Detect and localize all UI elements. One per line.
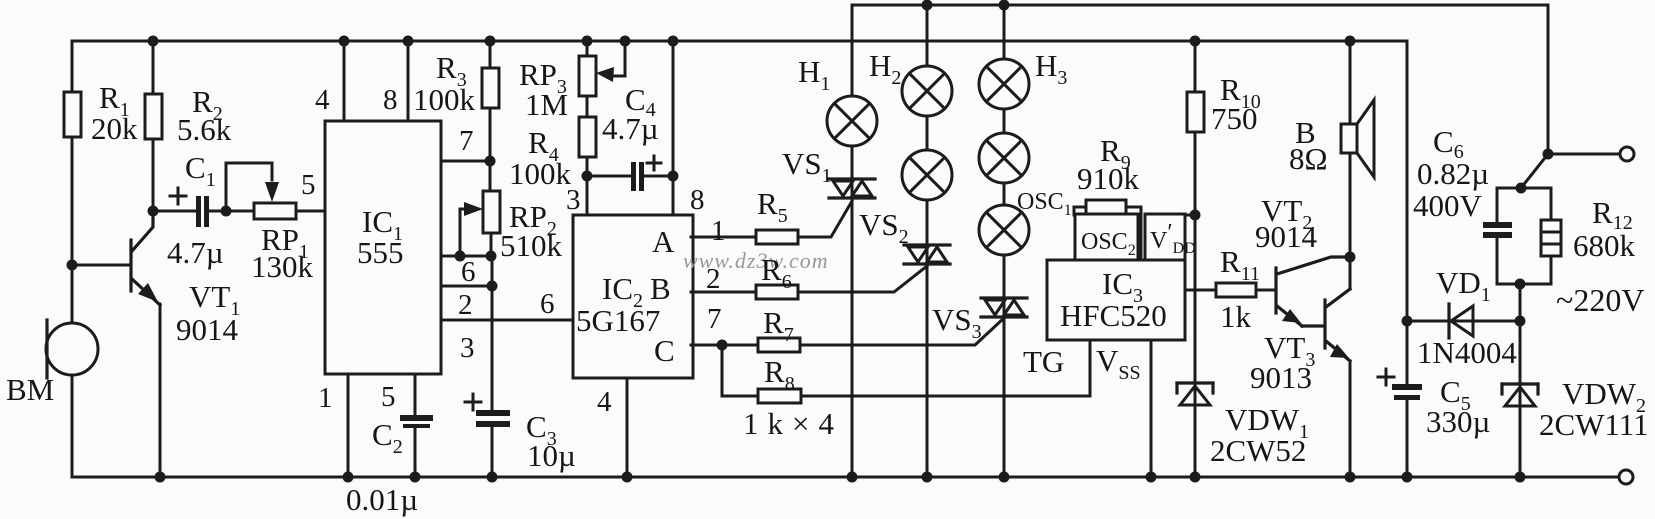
wire: VS1 to ground (851, 198, 854, 477)
svg-text:R11: R11 (1220, 244, 1260, 285)
node: ground rail / VS3 (999, 472, 1010, 483)
svg-text:R5: R5 (757, 186, 788, 227)
node: C1/RP1 wiper (221, 206, 232, 217)
wire: IC1 pin 3 to IC2 pin 6 (441, 319, 573, 322)
svg-text:7: 7 (459, 125, 474, 157)
potentiometer RP3 1M (586, 41, 589, 56)
lamp H3a (1003, 5, 1006, 60)
node: mid rail / IC1 pin8 (403, 36, 414, 47)
node: ground rail / VT1 emitter (155, 472, 166, 483)
resistor R4 100k (579, 117, 596, 157)
potentiometer RP1 130k (254, 203, 296, 219)
node: ground rail / VDW2 (1515, 472, 1526, 483)
node: ground rail / IC1 pin1 (343, 472, 354, 483)
node: mid rail / RP3 (582, 36, 593, 47)
wire: H1 to VS1 (851, 146, 854, 198)
capacitor C2 0.01u (400, 415, 433, 421)
node: speaker/collectors (1345, 252, 1356, 263)
node: mid rail / IC1 pin4 (339, 36, 350, 47)
resistor R2 5.6k (152, 41, 155, 94)
node: ground rail / VT3 emitter (1345, 472, 1356, 483)
svg-text:H3: H3 (1035, 48, 1067, 89)
wire: IC1 pin 5 bottom (414, 374, 417, 417)
svg-text:A: A (652, 224, 675, 259)
node: R2/VT1 collector/C1 (148, 206, 159, 217)
svg-text:4.7µ: 4.7µ (167, 235, 224, 270)
capacitor C5 330u (1406, 321, 1409, 386)
svg-text:www.dz3w.com: www.dz3w.com (683, 248, 829, 273)
node: VT1 base tee (67, 260, 78, 271)
svg-text:R8: R8 (764, 354, 795, 395)
capacitor C4 4.7u (587, 175, 631, 178)
svg-text:510k: 510k (500, 228, 563, 263)
svg-text:8Ω: 8Ω (1289, 141, 1328, 176)
lamp H2b (926, 116, 929, 151)
node: ground rail / C5 (1402, 472, 1413, 483)
transistor VT1 9014 (129, 240, 132, 291)
terminal: AC line top (1620, 147, 1634, 161)
IC U1: IC1 555 box (325, 121, 441, 374)
wire: VS3 to ground (1003, 317, 1006, 477)
node: ground rail / C3 (487, 472, 498, 483)
wire: mid supply rail (72, 41, 1407, 321)
svg-text:1k×4: 1k×4 (743, 406, 843, 441)
svg-text:6: 6 (461, 256, 476, 288)
svg-text:OSC2: OSC2 (1081, 229, 1136, 259)
wire: IC1 pin 6 (441, 255, 492, 258)
svg-text:750: 750 (1211, 101, 1258, 136)
wire: IC1 pin 8 (407, 41, 410, 121)
svg-text:BM: BM (6, 372, 54, 407)
svg-text:4.7µ: 4.7µ (602, 111, 659, 146)
node: ground rail / VS1 (847, 472, 858, 483)
svg-text:5: 5 (301, 169, 316, 201)
zener VDW1 2CW52 (1177, 381, 1213, 384)
svg-text:4: 4 (315, 84, 330, 116)
wire: bottom ground rail (72, 375, 1618, 477)
wire: C6-R12 bottom to VD1 node (1519, 284, 1522, 321)
wire: H2 to VS2 (926, 200, 929, 264)
svg-text:H2: H2 (869, 48, 901, 89)
wire: H3 to VS3 (1003, 255, 1006, 317)
IC U2: IC2 5G167 box (573, 215, 693, 378)
svg-text:1N4004: 1N4004 (1417, 335, 1517, 370)
wire: VT1 base (72, 264, 129, 267)
resistor R1 20k (64, 92, 81, 137)
node: RP2 bottom junction (486, 251, 497, 262)
diode VD1 1N4004 (1407, 320, 1520, 323)
capacitor C1 4.7u (153, 210, 196, 213)
svg-text:H1: H1 (798, 54, 830, 95)
wire: node to AC terminal (1521, 154, 1548, 188)
svg-text:20k: 20k (91, 111, 138, 146)
wire: pins 6-2 down to C3 (491, 256, 494, 412)
svg-text:VS1: VS1 (782, 146, 832, 187)
capacitor C6 0.82u 400V (1497, 188, 1521, 224)
svg-text:R7: R7 (763, 305, 794, 346)
node: ground rail / IC2 pin4 (622, 472, 633, 483)
resistor R12 680k (1521, 188, 1551, 220)
svg-text:1: 1 (318, 382, 333, 414)
node: mid rail / RP3 wiper (620, 36, 631, 47)
node: mid rail / R2 (148, 36, 159, 47)
svg-text:VD1: VD1 (1436, 265, 1491, 306)
pin OSC2 box (1075, 214, 1138, 261)
terminal: AC line bottom (1619, 470, 1633, 484)
wire: top supply rail (852, 5, 1548, 154)
svg-text:1M: 1M (525, 87, 568, 122)
svg-text:100k: 100k (509, 156, 572, 191)
capacitor C3 10u (476, 410, 510, 416)
svg-text:VS3: VS3 (932, 302, 982, 343)
svg-text:OSC1: OSC1 (1017, 189, 1072, 219)
svg-text:C2: C2 (372, 417, 403, 458)
resistor R6 (691, 291, 756, 294)
triac VS3 (981, 296, 1027, 299)
svg-text:910k: 910k (1077, 161, 1140, 196)
svg-text:8: 8 (383, 84, 398, 116)
node: ground rail / C2 (410, 472, 421, 483)
node: C6/R12 top (1516, 183, 1527, 194)
resistor R9 910k (1074, 207, 1086, 215)
potentiometer RP2 510k (489, 161, 492, 191)
svg-text:9014: 9014 (1255, 219, 1318, 254)
svg-text:~220V: ~220V (1556, 282, 1644, 318)
wire: TG pin (1089, 340, 1092, 396)
svg-text:1: 1 (711, 215, 726, 247)
node: AC top tee (1543, 149, 1554, 160)
node: mid rail / speaker (1345, 36, 1356, 47)
pin V-DD box (1145, 214, 1185, 261)
node: C6/R12 bottom (1515, 279, 1526, 290)
node: mid rail / C4/IC2 pin8 (668, 36, 679, 47)
wire: IC1 pin 7 (441, 160, 490, 163)
node: mid rail / R3 (485, 36, 496, 47)
svg-text:0.01µ: 0.01µ (346, 482, 418, 517)
svg-text:5G167: 5G167 (576, 303, 660, 338)
node: RP2 wiper junction (455, 251, 466, 262)
svg-text:TG: TG (1023, 344, 1064, 379)
svg-text:HFC520: HFC520 (1060, 298, 1167, 333)
node: pin2/C3 branch (487, 281, 498, 292)
node: pin C / R8 tee (717, 340, 728, 351)
wire: IC1 pin 2 (441, 285, 492, 288)
node: ground rail / VS2 (922, 472, 933, 483)
resistor R3 100k (489, 41, 492, 68)
svg-text:100k: 100k (413, 82, 476, 117)
node: top rail / H2 string (922, 0, 933, 11)
node: VD1 cathode junction (1515, 316, 1526, 327)
wire: IC1 pin 4 (343, 41, 346, 121)
node: ground rail / VDW1 (1190, 472, 1201, 483)
svg-text:0.82µ: 0.82µ (1417, 156, 1489, 191)
svg-text:6: 6 (540, 288, 555, 320)
svg-text:5.6k: 5.6k (177, 112, 232, 147)
lamp H3b (1003, 109, 1006, 134)
svg-text:2: 2 (458, 289, 473, 321)
svg-text:400V: 400V (1413, 188, 1483, 223)
IC U3: IC3 HFC520 box (1047, 260, 1185, 340)
node: top rail / H3 string (999, 0, 1010, 11)
loudspeaker B 8ohm (1349, 41, 1352, 124)
resistor R11 1k (1185, 289, 1216, 292)
transistor VT2 9014 (1274, 268, 1277, 313)
wire: V-DD to supply (1185, 214, 1195, 217)
svg-text:4: 4 (597, 386, 612, 418)
resistor R10 750 (1194, 41, 1197, 92)
node: V-DD junction (1190, 210, 1201, 221)
svg-text:10µ: 10µ (527, 438, 576, 473)
svg-text:VS2: VS2 (859, 207, 909, 248)
lamp H1 (851, 5, 854, 96)
lamp H3c (1003, 183, 1006, 206)
svg-text:2CW111: 2CW111 (1539, 407, 1649, 442)
microphone BM (46, 323, 98, 375)
lamp H2a (926, 5, 929, 67)
zener VDW2 2CW111 (1519, 321, 1522, 477)
svg-text:130k: 130k (251, 249, 314, 284)
node: R4/C4/IC2 pin3 (582, 171, 593, 182)
svg-text:2CW52: 2CW52 (1210, 433, 1306, 468)
svg-text:680k: 680k (1573, 228, 1636, 263)
svg-text:C: C (654, 333, 675, 368)
triac VS1 (829, 177, 875, 180)
svg-text:5: 5 (381, 381, 396, 413)
wire: IC2 pin 3 (586, 176, 589, 215)
transistor VT3 9013 (1323, 300, 1326, 348)
wire: VS2 to ground (926, 264, 929, 477)
svg-text:330µ: 330µ (1426, 404, 1490, 439)
triac VS2 (904, 243, 950, 246)
node: rectifier input (1402, 316, 1413, 327)
resistor R5 (691, 236, 756, 239)
svg-text:2: 2 (706, 263, 721, 295)
svg-text:C1: C1 (185, 150, 216, 191)
wire: IC2 pin 8 (672, 41, 675, 215)
wire: IC1 pin 1 to ground (347, 374, 350, 477)
node: C4/pin8 line (668, 171, 679, 182)
svg-text:8: 8 (690, 184, 705, 216)
svg-text:9014: 9014 (176, 312, 239, 347)
svg-text:3: 3 (460, 332, 475, 364)
node: ground rail / IC3 Vss (1146, 472, 1157, 483)
svg-text:3: 3 (566, 184, 581, 216)
resistor R8 (722, 345, 758, 396)
wire: to top terminal (1548, 153, 1619, 156)
svg-text:VSS: VSS (1096, 343, 1141, 384)
node: pin7/R3/RP2 (485, 156, 496, 167)
resistor R7 (691, 344, 758, 347)
wire: Vss pin to ground (1150, 340, 1153, 477)
svg-text:7: 7 (707, 303, 722, 335)
svg-text:9013: 9013 (1250, 360, 1312, 395)
node: mid rail / R10 (1190, 36, 1201, 47)
wire: IC2 pin 4 to ground (626, 378, 629, 477)
svg-text:1k: 1k (1220, 299, 1252, 334)
svg-text:555: 555 (357, 235, 404, 270)
